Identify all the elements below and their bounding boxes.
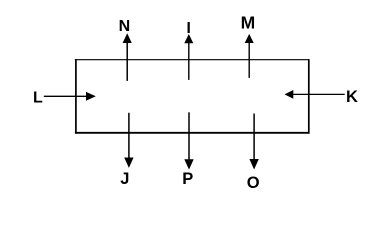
- arrow N (up, crossing top edge): [123, 33, 132, 81]
- svg-text:P: P: [182, 170, 193, 188]
- arrow P (down, crossing bottom edge): [184, 112, 193, 169]
- arrow M (up, crossing top edge): [245, 34, 254, 78]
- svg-text:J: J: [120, 170, 129, 188]
- rectangle box: [75, 59, 310, 133]
- svg-text:I: I: [187, 20, 191, 37]
- svg-text:K: K: [346, 88, 358, 106]
- svg-text:L: L: [33, 89, 43, 106]
- svg-text:N: N: [119, 18, 131, 35]
- arrow K (left, crossing right edge): [285, 90, 345, 99]
- svg-text:O: O: [247, 174, 260, 192]
- svg-text:M: M: [241, 13, 256, 33]
- arrow L (right, crossing left edge): [44, 92, 96, 101]
- arrow O (down, crossing bottom edge): [249, 114, 258, 170]
- arrow J (down, crossing bottom edge): [124, 113, 133, 168]
- arrow I (up, crossing top edge): [184, 34, 193, 80]
